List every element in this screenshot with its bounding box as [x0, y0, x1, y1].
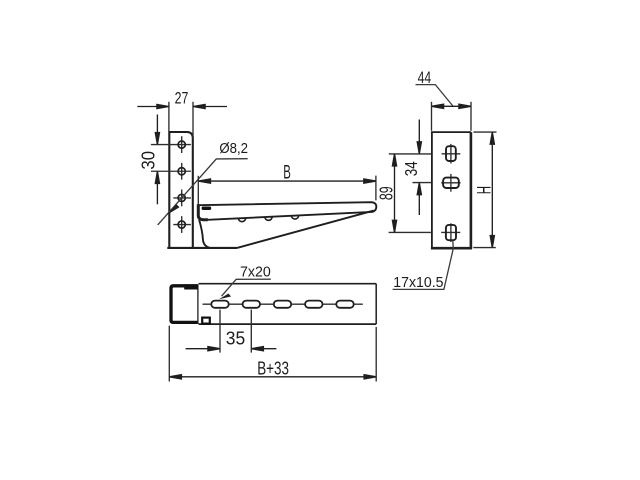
side view wall plate outline	[169, 132, 193, 248]
dimension B extension line right	[375, 176, 377, 201]
hole H3 circle	[178, 194, 185, 201]
dimension 34 extension line	[413, 182, 432, 184]
hole H1 circle	[178, 141, 185, 148]
bottom view plate tab (black notch)	[184, 284, 198, 289]
svg-text:Ø8,2: Ø8,2	[219, 141, 248, 157]
svg-text:B: B	[283, 163, 291, 184]
bracket arm top edge and rounded tip	[198, 202, 376, 220]
label 7x20 leader	[222, 279, 271, 296]
slot bumps on arm underside	[238, 215, 298, 221]
dimension 44 line with arrows	[432, 104, 472, 108]
hole H4 crosshair	[173, 216, 191, 233]
svg-text:34: 34	[401, 161, 421, 176]
label 17x10.5 leader	[393, 241, 454, 290]
hole H4 circle	[178, 221, 185, 228]
dimension 35 extension lines	[220, 310, 251, 353]
gusset web left edge curve	[199, 220, 210, 248]
bottom view slot 1 (obround 7x20)	[211, 301, 228, 308]
svg-text:44: 44	[418, 68, 432, 87]
arm hook clip (black)	[202, 207, 212, 211]
svg-text:7x20: 7x20	[240, 264, 271, 281]
bracket arm back edge and bend fillet	[198, 204, 208, 220]
slot S1 (vertical obround)	[446, 146, 456, 161]
svg-text:H: H	[473, 186, 495, 194]
bottom view channel outline	[199, 284, 377, 324]
leader arrowhead	[167, 204, 180, 215]
dimension B extension line left	[197, 176, 199, 205]
bottom view clip square	[202, 318, 210, 324]
label leader line for hole diameter	[158, 159, 248, 225]
dimension 89 extension lines	[389, 154, 432, 233]
slot S2 crosshair	[441, 174, 460, 192]
slot S2 (horizontal obround)	[443, 178, 459, 188]
bottom view slot 5 (obround 7x20)	[336, 301, 353, 308]
dimension B+33 line with arrows	[169, 375, 376, 379]
bottom view folded end right thin edge	[197, 284, 199, 323]
label 7x20 leader arrowhead	[219, 294, 231, 300]
slot S3 crosshair	[441, 223, 460, 242]
dimension B line with arrows	[198, 179, 376, 183]
svg-text:17x10.5: 17x10.5	[393, 274, 443, 291]
hole H2 crosshair	[151, 163, 191, 180]
dimension H extension lines	[473, 132, 496, 248]
dimension 27 extension lines	[169, 102, 193, 140]
svg-text:35: 35	[226, 329, 245, 349]
bottom view center line	[203, 303, 363, 305]
dimension 44 extension lines	[432, 102, 472, 131]
side view plate bottom edge extended to gusset	[167, 247, 237, 249]
slot S1 crosshair	[442, 144, 461, 164]
svg-text:89: 89	[375, 186, 396, 200]
hole H3 crosshair	[173, 190, 191, 207]
bottom view folded end (thick C profile)	[171, 286, 198, 323]
dimension B+33 extension lines	[169, 326, 376, 382]
bottom view slot 2 (obround 7x20)	[243, 301, 260, 308]
gusset diagonal underside	[237, 211, 374, 248]
slot S3 (vertical obround)	[446, 225, 456, 240]
dimension 89 line with arrows	[392, 154, 396, 233]
dimension H line with arrows	[490, 132, 494, 248]
hole H1 crosshair	[151, 136, 191, 153]
front view plate outline	[431, 132, 472, 248]
dimension 35 arrows	[186, 347, 277, 351]
svg-text:B+33: B+33	[257, 357, 289, 378]
svg-text:30: 30	[139, 151, 159, 170]
label 44 leader	[416, 85, 453, 106]
dimension 30 arrows	[155, 115, 159, 205]
svg-text:27: 27	[175, 88, 189, 107]
hole H2 circle	[178, 168, 185, 175]
bottom view slot 3 (obround 7x20)	[274, 301, 291, 308]
dimension 27 arrows	[137, 104, 227, 108]
dimension 34 arrows	[417, 120, 421, 216]
bottom view slot 4 (obround 7x20)	[305, 301, 322, 308]
